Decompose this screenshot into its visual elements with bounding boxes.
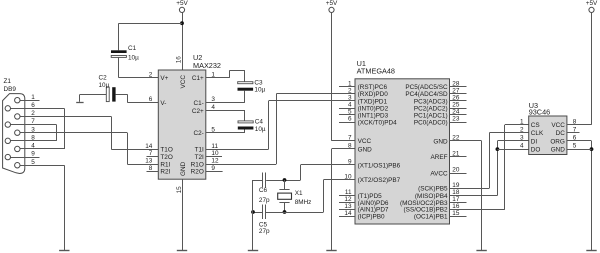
+5V supply symbol (left, feeds U2) xyxy=(176,0,188,70)
U2 right pin labels xyxy=(191,75,204,176)
U2 pin 16 VCC (top) number and label xyxy=(176,56,187,89)
wire U3 DI to data junction xyxy=(497,141,528,196)
node: X1 top junction xyxy=(283,178,287,182)
svg-text:R2O: R2O xyxy=(191,169,204,176)
DB9 pin 2 xyxy=(15,110,36,119)
U1 right pin stubs (unconnected pins) xyxy=(450,87,467,217)
svg-text:C1: C1 xyxy=(128,45,137,52)
svg-text:T2I: T2I xyxy=(195,154,204,161)
svg-text:T1O: T1O xyxy=(160,147,172,154)
DB9 pin 3 xyxy=(15,126,36,135)
U2 pin 8 R2I stub xyxy=(147,171,159,173)
svg-text:2: 2 xyxy=(348,88,352,95)
svg-text:20: 20 xyxy=(452,167,460,174)
svg-text:C3: C3 xyxy=(254,80,263,87)
svg-text:4: 4 xyxy=(348,102,352,109)
svg-text:C4: C4 xyxy=(255,119,264,126)
svg-text:5: 5 xyxy=(348,109,352,116)
crystal X1 8MHz xyxy=(278,180,292,212)
U2 left pin labels xyxy=(160,75,172,176)
svg-text:(TXD)PD1: (TXD)PD1 xyxy=(358,98,388,105)
svg-text:(XT2/OS2)PB7: (XT2/OS2)PB7 xyxy=(358,177,401,184)
svg-text:8: 8 xyxy=(348,143,352,150)
wire DB9 pin5 to ground xyxy=(17,165,64,251)
microcontroller U1 ATMEGA48 body xyxy=(355,79,450,224)
svg-text:27: 27 xyxy=(452,88,460,95)
svg-text:(ICP)PB0: (ICP)PB0 xyxy=(358,214,385,221)
U1 right pin labels xyxy=(400,84,448,220)
ground (crystal block) xyxy=(248,250,258,252)
ground (C2 left) xyxy=(76,94,83,102)
svg-text:DO: DO xyxy=(531,146,541,153)
svg-text:GND: GND xyxy=(358,146,373,153)
svg-text:1: 1 xyxy=(31,94,35,101)
svg-text:4: 4 xyxy=(520,143,524,150)
svg-text:3: 3 xyxy=(520,135,524,142)
svg-text:C1+: C1+ xyxy=(192,75,204,82)
svg-text:CS: CS xyxy=(531,122,540,129)
svg-text:C1-: C1- xyxy=(193,100,203,107)
svg-text:(RST)PC6: (RST)PC6 xyxy=(358,84,388,91)
wire U3 DO to data junction xyxy=(497,149,528,151)
svg-text:V+: V+ xyxy=(160,75,168,82)
svg-text:15: 15 xyxy=(452,210,460,217)
svg-text:9: 9 xyxy=(211,165,215,172)
wire U1 GND pin22 to ground xyxy=(450,141,482,252)
svg-text:8MHz: 8MHz xyxy=(295,199,312,206)
svg-text:14: 14 xyxy=(344,210,352,217)
svg-text:24: 24 xyxy=(452,109,460,116)
svg-text:6: 6 xyxy=(31,102,35,109)
svg-text:19: 19 xyxy=(452,182,460,189)
svg-text:(XCK/T0)PD4: (XCK/T0)PD4 xyxy=(358,119,398,126)
svg-text:C6: C6 xyxy=(259,187,268,194)
ground (U1 pin 22) xyxy=(476,250,486,252)
svg-text:C2: C2 xyxy=(99,74,108,81)
U3 pin 7 DC stub xyxy=(567,132,580,134)
svg-text:(SCK)PB5: (SCK)PB5 xyxy=(418,186,448,193)
ground (U1 pin 8) xyxy=(326,250,336,252)
svg-text:7: 7 xyxy=(348,134,352,141)
U1 right pin numbers xyxy=(452,81,460,217)
DB9 pin 5 xyxy=(15,159,36,168)
svg-text:PC1(ADC1): PC1(ADC1) xyxy=(414,112,448,119)
svg-text:(INT1)PD3: (INT1)PD3 xyxy=(358,112,389,119)
svg-text:5: 5 xyxy=(31,159,35,166)
svg-text:C2+: C2+ xyxy=(192,108,204,115)
DB9 pin 8 xyxy=(5,134,35,143)
U2 pin 15 GND (bottom) wire to ground xyxy=(176,161,187,251)
U2 pin 9 R2O stub xyxy=(206,171,223,173)
wire U2 R1O to U1 RXD/PD0 xyxy=(206,94,355,165)
svg-text:13: 13 xyxy=(145,158,153,165)
svg-text:VCC: VCC xyxy=(551,122,565,129)
svg-text:(RXD)PD0: (RXD)PD0 xyxy=(358,91,389,98)
svg-text:ORG: ORG xyxy=(550,138,565,145)
svg-text:3: 3 xyxy=(31,126,35,133)
svg-text:10µ: 10µ xyxy=(99,82,110,89)
wire U3 ORG pin6 to ground net xyxy=(567,141,592,252)
node: U3 ground junction xyxy=(590,147,594,151)
+5V supply symbol (right, feeds U3 VCC) xyxy=(567,0,598,125)
wire U1 SCK pin19 to U3 CLK xyxy=(450,133,529,189)
svg-text:23: 23 xyxy=(452,116,460,123)
U1 left pin labels xyxy=(358,84,401,220)
U3 left pin numbers xyxy=(520,118,524,149)
svg-text:PC4(ADC4/SD: PC4(ADC4/SD xyxy=(405,91,448,98)
svg-text:4: 4 xyxy=(31,143,35,150)
svg-text:R1I: R1I xyxy=(160,161,170,168)
ground (DB9 pin5) xyxy=(59,250,69,252)
ground (U2 pin 15) xyxy=(177,250,187,252)
svg-text:12: 12 xyxy=(211,158,219,165)
svg-text:10µ: 10µ xyxy=(128,55,139,62)
svg-text:R1O: R1O xyxy=(191,161,204,168)
wire U1 GND pin8 to ground xyxy=(332,149,356,252)
svg-text:10µ: 10µ xyxy=(255,126,266,133)
svg-text:11: 11 xyxy=(345,189,352,196)
wire +5V to C1 top xyxy=(119,23,182,25)
svg-text:15: 15 xyxy=(176,186,183,194)
svg-text:X1: X1 xyxy=(295,190,303,197)
svg-text:Z1: Z1 xyxy=(4,78,12,85)
DB9 pin 9 xyxy=(5,151,35,160)
svg-text:5: 5 xyxy=(573,143,577,150)
svg-text:GND: GND xyxy=(180,161,187,176)
svg-text:(OC1A)PB1: (OC1A)PB1 xyxy=(414,214,448,221)
svg-text:26: 26 xyxy=(452,95,460,102)
svg-text:+5V: +5V xyxy=(176,0,188,7)
svg-text:3: 3 xyxy=(348,95,352,102)
svg-text:T2O: T2O xyxy=(160,154,172,161)
DB9 pin 7 xyxy=(5,118,35,127)
svg-text:9: 9 xyxy=(31,151,35,158)
svg-text:27p: 27p xyxy=(259,228,270,235)
svg-text:2: 2 xyxy=(520,127,524,134)
svg-text:2: 2 xyxy=(149,71,153,78)
connector Z1 DB9 shell xyxy=(3,94,25,174)
wire crystal net to ground xyxy=(252,180,254,251)
svg-text:DB9: DB9 xyxy=(4,86,17,93)
U3 left pin labels xyxy=(531,122,544,153)
U3 right pin numbers xyxy=(573,118,577,149)
svg-text:AREF: AREF xyxy=(431,154,448,161)
svg-text:+5V: +5V xyxy=(326,0,338,7)
wire DB9 pin2 to U2 T1O xyxy=(17,116,158,149)
wire DB9 pin3 to U2 R1I xyxy=(17,133,158,165)
svg-text:28: 28 xyxy=(452,81,460,88)
wire U2 T1I to U1 TXD/PD1 xyxy=(206,101,355,150)
wire C1 to U2 V+ xyxy=(119,77,159,79)
svg-text:VCC: VCC xyxy=(180,75,187,89)
svg-text:VCC: VCC xyxy=(358,138,372,145)
svg-text:(INT0)PD2: (INT0)PD2 xyxy=(358,105,389,112)
svg-text:8: 8 xyxy=(31,134,35,141)
svg-text:8: 8 xyxy=(149,165,153,172)
U3 right pin labels xyxy=(550,122,565,153)
capacitor C2 10u (electrolytic) xyxy=(80,87,128,101)
svg-text:1: 1 xyxy=(348,81,352,88)
capacitor C1 10u (electrolytic) xyxy=(111,23,127,77)
svg-text:(XT1/OS1)PB6: (XT1/OS1)PB6 xyxy=(358,162,401,169)
U2 left pin numbers xyxy=(145,71,153,172)
svg-text:DI: DI xyxy=(531,138,538,145)
wire U3 GND pin5 to ground net xyxy=(567,149,592,151)
capacitor C3 10u (electrolytic) between U2 C1+ and C1- xyxy=(206,70,253,102)
wire U1 MISO pin18 to data junction xyxy=(450,195,498,197)
svg-text:14: 14 xyxy=(145,143,153,150)
svg-text:ATMEGA48: ATMEGA48 xyxy=(357,66,395,75)
capacitor C6 27p xyxy=(263,173,266,188)
svg-text:93C46: 93C46 xyxy=(529,108,551,117)
U2 pin 7 T2O stub xyxy=(147,156,159,158)
wire C2 to U2 V- xyxy=(128,94,159,102)
node: X1 bottom junction xyxy=(283,210,287,214)
svg-text:+5V: +5V xyxy=(586,0,598,7)
svg-text:AVCC: AVCC xyxy=(430,170,448,177)
svg-text:CLK: CLK xyxy=(531,130,544,137)
wire DB9 pin1 stub xyxy=(17,100,39,102)
svg-text:PC0(ADC0): PC0(ADC0) xyxy=(414,119,448,126)
svg-text:R2I: R2I xyxy=(160,169,170,176)
svg-text:DC: DC xyxy=(556,130,566,137)
wire DB9 pin9 stub xyxy=(8,157,40,159)
svg-text:10µ: 10µ xyxy=(254,87,265,94)
svg-text:6: 6 xyxy=(348,116,352,123)
svg-text:16: 16 xyxy=(176,56,183,64)
U2 pin 10 T2I stub xyxy=(206,156,222,158)
capacitor C5 27p xyxy=(263,205,266,220)
svg-text:(T1)PD5: (T1)PD5 xyxy=(358,193,383,200)
IC U2 MAX232 body xyxy=(158,70,206,179)
svg-text:GND: GND xyxy=(551,146,566,153)
svg-text:GND: GND xyxy=(433,138,448,145)
ground (U3) xyxy=(586,250,596,252)
svg-text:6: 6 xyxy=(149,96,153,103)
svg-text:PC3(ADC3): PC3(ADC3) xyxy=(414,98,448,105)
svg-text:21: 21 xyxy=(452,151,460,158)
svg-text:25: 25 xyxy=(452,102,460,109)
node: +5V junction to C1 xyxy=(180,21,184,25)
+5V supply symbol (middle, feeds U1 VCC) xyxy=(326,0,355,141)
svg-text:MAX232: MAX232 xyxy=(193,61,221,70)
wire DB9 pin6 to pin4 (DSR-DTR tie) xyxy=(8,108,65,149)
svg-text:C2-: C2- xyxy=(193,130,203,137)
U1 left pin stubs (unconnected pins) xyxy=(339,87,355,217)
wire DB9 pin7 to pin8 (RTS-CTS tie) xyxy=(8,125,57,141)
capacitor C4 10u (electrolytic) between U2 C2+ and C2- xyxy=(206,111,254,133)
U1 left pin numbers xyxy=(344,81,352,217)
svg-text:T1I: T1I xyxy=(195,147,204,154)
svg-text:PC2(ADC2): PC2(ADC2) xyxy=(414,105,448,112)
svg-text:1: 1 xyxy=(520,118,524,125)
wire U1 XT2 pin10 to crystal net xyxy=(253,180,355,213)
wire U1 SS pin16 to U3 CS xyxy=(450,125,529,210)
EEPROM U3 93C46 body xyxy=(529,116,567,155)
DB9 pin 6 xyxy=(5,102,35,111)
svg-text:11: 11 xyxy=(211,143,218,150)
svg-text:27p: 27p xyxy=(259,197,270,204)
DB9 pin 4 xyxy=(15,143,36,152)
svg-text:7: 7 xyxy=(31,118,35,125)
wire U1 XT1 pin9 to crystal net xyxy=(253,165,355,181)
U2 right pin numbers xyxy=(211,71,219,172)
node: DI/DO data junction xyxy=(496,147,500,151)
svg-text:(MISO)PB4: (MISO)PB4 xyxy=(415,193,448,200)
svg-text:2: 2 xyxy=(31,110,35,117)
DB9 pin 1 xyxy=(15,94,36,103)
svg-text:PC5(ADC5/SC: PC5(ADC5/SC xyxy=(405,84,448,91)
svg-text:V-: V- xyxy=(160,100,166,107)
node: crystal ground junction xyxy=(251,210,255,214)
